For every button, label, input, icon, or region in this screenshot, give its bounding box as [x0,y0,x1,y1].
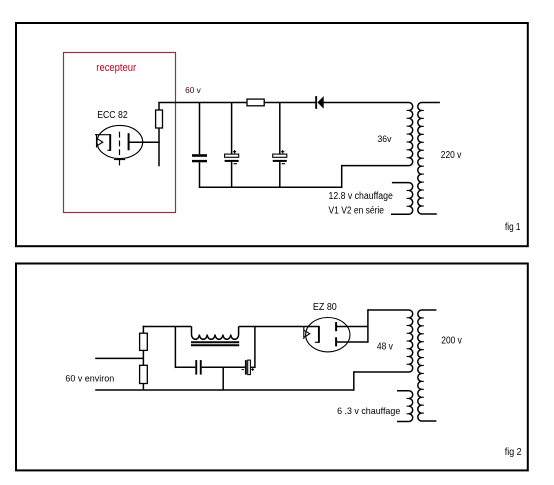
svg-text:EZ 80: EZ 80 [313,302,337,313]
svg-text:36v: 36v [378,134,392,144]
svg-text:6 .3 v chauffage: 6 .3 v chauffage [337,406,400,417]
svg-text:ECC 82: ECC 82 [97,110,128,121]
svg-text:fig 2: fig 2 [505,447,522,458]
svg-text:48 v: 48 v [377,342,393,353]
svg-text:60 v: 60 v [185,85,202,95]
svg-text:200 v: 200 v [441,335,462,346]
svg-text:220 v: 220 v [441,150,462,161]
svg-text:12.8 v chauffage: 12.8 v chauffage [329,191,394,202]
svg-text:V1 V2 en série: V1 V2 en série [329,206,385,217]
svg-text:recepteur: recepteur [96,62,136,74]
svg-text:fig 1: fig 1 [505,222,521,233]
svg-text:60 v environ: 60 v environ [65,374,114,384]
